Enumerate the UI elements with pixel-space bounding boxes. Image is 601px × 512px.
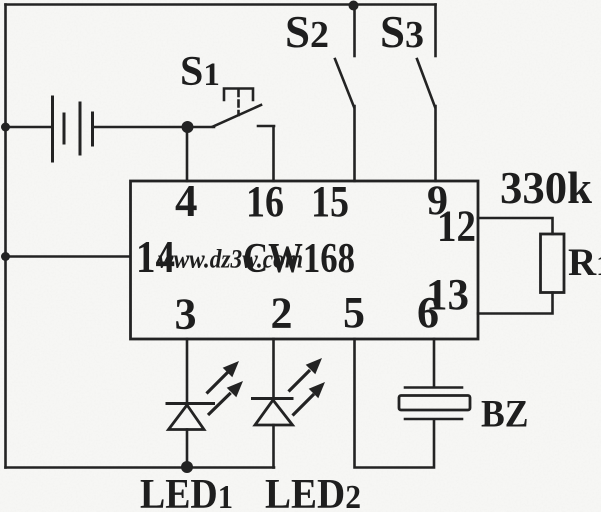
wire LED1 to bottom rail <box>186 430 189 468</box>
svg-text:BZ: BZ <box>481 393 529 436</box>
svg-text:R1: R1 <box>568 241 601 284</box>
wire pin4 <box>186 128 189 181</box>
svg-text:3: 3 <box>175 290 197 339</box>
wire bottom rail <box>6 466 275 469</box>
IC U1 CW168 body <box>131 181 479 339</box>
svg-text:12: 12 <box>437 202 476 251</box>
wire battery to S1 <box>94 126 214 129</box>
LED1 cathode bar <box>167 402 214 405</box>
node battery left rail <box>1 123 10 132</box>
wire pin6 to buzzer top <box>433 339 436 387</box>
switch S3 blade <box>417 59 435 107</box>
LED2 cathode bar <box>253 397 293 400</box>
svg-text:15: 15 <box>311 177 349 226</box>
node S2 top rail <box>349 1 359 11</box>
switch S2 blade <box>335 59 354 107</box>
LED2 arrow 1 <box>289 358 323 392</box>
svg-text:S3: S3 <box>380 7 424 57</box>
svg-text:330k: 330k <box>500 163 592 213</box>
resistor R1 body <box>541 234 565 293</box>
switch S2 top stub <box>353 5 356 57</box>
svg-text:14: 14 <box>136 232 175 282</box>
wire pin12 to resistor <box>478 218 553 234</box>
LED2 triangle <box>255 400 293 425</box>
svg-text:4: 4 <box>175 176 198 226</box>
wire battery left lead <box>6 126 52 129</box>
svg-text:S2: S2 <box>285 7 329 57</box>
wire pin9 <box>434 106 437 181</box>
node S1 pivot <box>182 121 194 133</box>
wire top rail <box>6 3 436 6</box>
LED2 arrow 2 <box>293 382 326 416</box>
LED1 arrow 2 <box>208 381 243 415</box>
paper noise background <box>0 0 1 1</box>
node pin14 left rail <box>1 252 10 261</box>
buzzer BZ disc <box>399 396 470 411</box>
svg-text:16: 16 <box>246 177 284 226</box>
svg-text:6: 6 <box>417 288 439 337</box>
wire LED2 to bottom rail <box>272 425 275 468</box>
wire resistor to pin13 <box>478 293 553 314</box>
svg-text:CW168: CW168 <box>243 236 355 282</box>
wire pin2 to LED2 <box>272 339 275 398</box>
wire pin3 to LED1 <box>186 339 189 403</box>
svg-text:2: 2 <box>271 289 293 338</box>
buzzer BZ top plate <box>405 386 462 389</box>
wire pin5 to buzzer bottom <box>355 339 435 468</box>
switch S1 blade <box>213 105 261 127</box>
LED1 arrow 1 <box>207 361 240 394</box>
switch S1 fixed contact <box>258 126 274 181</box>
switch S1 pushbutton actuator <box>224 89 253 101</box>
node LED1 bottom rail <box>181 461 193 473</box>
battery GB <box>53 97 93 161</box>
switch S3 top stub <box>434 5 437 57</box>
wire left rail <box>4 5 7 468</box>
LED1 triangle <box>169 405 205 430</box>
wire pin14 <box>6 255 131 258</box>
switch S1 actuator dashed stem <box>237 90 240 115</box>
svg-text:5: 5 <box>343 288 365 337</box>
wire pin15 <box>353 106 356 181</box>
buzzer BZ bottom plate <box>405 418 462 421</box>
